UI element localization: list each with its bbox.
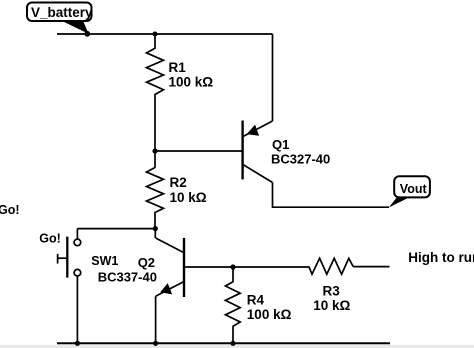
svg-text:V_battery: V_battery xyxy=(31,5,93,20)
wire Q2 collector lead xyxy=(154,229,156,238)
svg-text:BC327-40: BC327-40 xyxy=(271,151,330,166)
junction R4 ground xyxy=(230,341,235,346)
wire Q1 collector to Vout xyxy=(273,183,390,208)
wire R3 right lead xyxy=(353,266,389,268)
resistor R2 xyxy=(147,151,164,229)
svg-text:Vout: Vout xyxy=(400,182,428,196)
svg-text:R3: R3 xyxy=(323,284,341,299)
junction Q2 base node xyxy=(230,264,235,269)
wire Q2 base node to R3 xyxy=(233,266,309,268)
svg-text:Q1: Q1 xyxy=(272,137,289,152)
wire Q1 emitter lead xyxy=(272,34,274,121)
resistor R3 xyxy=(309,258,353,274)
wire switch to R2 node xyxy=(77,228,155,230)
junction R1 top xyxy=(153,32,158,37)
svg-text:10 kΩ: 10 kΩ xyxy=(313,298,350,313)
wire top rail xyxy=(57,33,273,35)
junction R2 bottom node xyxy=(153,226,158,231)
net flag V_battery xyxy=(27,3,93,34)
svg-text:R1: R1 xyxy=(169,60,187,75)
wire SW1 bottom lead xyxy=(76,276,78,343)
svg-text:Go!: Go! xyxy=(39,232,61,246)
junction V_battery tap xyxy=(84,31,90,37)
transistor Q2 xyxy=(156,238,184,297)
transistor Q1 xyxy=(243,121,273,183)
svg-text:BC337-40: BC337-40 xyxy=(98,270,157,285)
junction Q2 emitter ground xyxy=(153,341,158,346)
wire Q2 emitter lead xyxy=(155,296,157,343)
svg-text:Go!: Go! xyxy=(0,203,20,217)
svg-text:100 kΩ: 100 kΩ xyxy=(247,307,292,322)
svg-text:R2: R2 xyxy=(170,175,187,190)
resistor R1 xyxy=(147,34,164,151)
svg-text:100 kΩ: 100 kΩ xyxy=(169,74,214,89)
wire Q2 base xyxy=(184,266,233,268)
ground rail xyxy=(57,342,390,344)
svg-text:High to run: High to run xyxy=(408,250,474,265)
wire Q1 base xyxy=(155,150,243,152)
resistor R4 xyxy=(225,267,240,343)
junction SW1 ground xyxy=(75,341,80,346)
svg-text:R4: R4 xyxy=(247,293,265,308)
switch SW1 xyxy=(58,237,81,278)
wire SW1 top lead xyxy=(76,229,78,239)
svg-text:10 kΩ: 10 kΩ xyxy=(170,190,207,205)
svg-text:SW1: SW1 xyxy=(91,254,118,268)
svg-text:Q2: Q2 xyxy=(138,255,155,270)
junction Q1 base node xyxy=(152,148,157,153)
net flag Vout xyxy=(389,176,430,207)
